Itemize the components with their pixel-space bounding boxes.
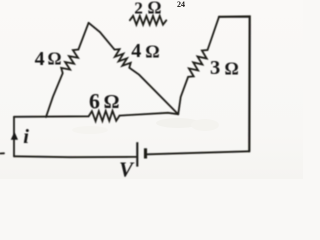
svg-text:4: 4: [131, 40, 141, 62]
svg-text:Ω: Ω: [145, 42, 159, 62]
svg-text:6: 6: [89, 89, 100, 113]
svg-text:24: 24: [177, 0, 185, 9]
svg-text:Ω: Ω: [148, 0, 162, 18]
svg-text:Ω: Ω: [48, 49, 62, 69]
svg-text:2: 2: [134, 0, 143, 17]
svg-text:V: V: [119, 158, 135, 180]
svg-text:3: 3: [210, 57, 220, 79]
svg-text:Ω: Ω: [225, 59, 239, 79]
svg-text:i: i: [23, 126, 29, 148]
svg-text:4: 4: [35, 48, 45, 70]
svg-text:Ω: Ω: [104, 91, 120, 113]
